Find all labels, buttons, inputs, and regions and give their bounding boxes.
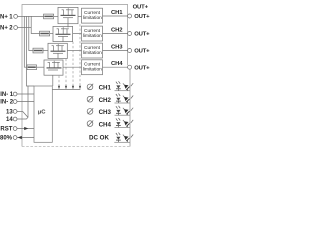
pushbutton CH3 (87, 108, 93, 114)
80% arrowhead (18, 136, 22, 139)
bus wire to row3 (29, 16, 33, 50)
wire CL4 to OUT4 (103, 66, 128, 68)
wire IN-1 to uC (17, 93, 34, 95)
terminal IN-2 (13, 100, 17, 104)
switch T4 (MOSFET box) (44, 60, 63, 86)
svg-text:OUT+: OUT+ (133, 4, 149, 10)
bus wire to row4 (24, 16, 27, 67)
signal rail right (129, 69, 131, 146)
LED pair CH4 (116, 118, 133, 127)
svg-text:OUT+: OUT+ (134, 65, 150, 71)
LED wire CH1 (115, 90, 131, 92)
svg-text:13: 13 (6, 110, 13, 116)
gate control dashed lines (59, 24, 80, 86)
terminal OUT+ CH4 (128, 65, 132, 69)
svg-text:CH1: CH1 (111, 10, 123, 16)
uC sense line (52, 89, 80, 91)
wire T1 to current limitation 1 (78, 15, 82, 17)
bus wire to uC supply (27, 16, 35, 86)
dashed line ch4 (58, 76, 60, 86)
svg-text:14: 14 (6, 117, 13, 123)
LED pair CH1 (116, 81, 133, 90)
terminal 14 (13, 117, 17, 121)
current limitation 4 box (82, 60, 103, 75)
pushbutton CH1 (87, 84, 93, 90)
svg-text:CH2: CH2 (111, 27, 123, 33)
wire T3 to current limitation 3 (68, 50, 82, 52)
svg-text:CH3: CH3 (99, 109, 112, 116)
terminal circles left (13, 15, 17, 140)
svg-text:CH1: CH1 (99, 85, 112, 92)
current limitation 2 box (82, 26, 103, 41)
wire CL3 to OUT3 (103, 50, 128, 52)
svg-text:µC: µC (38, 110, 46, 116)
terminal OUT+ CH1 (128, 14, 132, 18)
switch T1 (MOSFET box) (58, 7, 78, 27)
uC box (34, 86, 52, 142)
terminal N+2 (14, 26, 18, 30)
wire N+1 to shunt R1 (18, 15, 44, 17)
terminal 13 (13, 110, 17, 114)
shunt R2 (40, 31, 50, 36)
wire 80% from uC (17, 137, 34, 139)
wire R3 to switch T3 (43, 50, 48, 52)
svg-text:DC OK: DC OK (89, 135, 109, 142)
svg-text:limitation: limitation (83, 15, 102, 21)
svg-text:OUT+: OUT+ (134, 32, 150, 38)
wire CL1 to OUT1 (103, 15, 128, 17)
relay contact arm (23, 111, 28, 117)
relay feed line (27, 86, 29, 117)
svg-text:IN-: IN- (0, 92, 8, 98)
pushbutton CH4 (87, 121, 93, 127)
LED pair CH3 (116, 106, 133, 115)
shunt R1 (44, 14, 54, 19)
svg-text:OUT+: OUT+ (134, 49, 150, 55)
dashed line ch2 (72, 42, 74, 86)
wire R4 to switch T4 (37, 66, 45, 68)
LED wire CH2 (115, 102, 131, 104)
device frame (22, 5, 128, 147)
svg-text:CH3: CH3 (111, 44, 123, 50)
switch T2 (MOSFET box) (53, 26, 73, 41)
bottom frame note line (22, 146, 130, 148)
svg-text:limitation: limitation (83, 33, 102, 39)
shunt R4 (27, 65, 37, 70)
svg-text:CH2: CH2 (99, 97, 112, 104)
LED wire DC OK (114, 141, 130, 143)
switch T3 (MOSFET box) (48, 43, 67, 58)
terminal N+1 (14, 15, 18, 19)
wire 14 (17, 117, 28, 119)
wire R1 to switch T1 (54, 15, 58, 17)
arrowheads into uC line (58, 86, 81, 89)
current limitation 3 box (82, 43, 103, 58)
svg-text:CH4: CH4 (111, 61, 123, 67)
terminal IN-1 (13, 92, 17, 96)
terminal OUT+ CH3 (128, 49, 132, 53)
svg-text:limitation: limitation (83, 67, 102, 73)
LED wire CH3 (115, 114, 131, 116)
dashed line ch3 (65, 59, 67, 86)
svg-text:OUT+: OUT+ (134, 14, 150, 20)
wire CL2 to OUT2 (103, 33, 128, 35)
wire 13 (17, 110, 23, 112)
terminal RST (13, 127, 17, 131)
LED wire CH4 (115, 126, 131, 128)
svg-text:RST: RST (0, 127, 12, 133)
wire RST to uC (17, 128, 34, 130)
svg-text:80%: 80% (0, 136, 13, 142)
pushbutton CH2 (87, 96, 93, 102)
LED pair CH2 (116, 94, 133, 103)
wire T4 to current limitation 4 (63, 66, 82, 68)
shunt R3 (33, 48, 43, 53)
current limitation labels (83, 10, 102, 73)
wire T2 to current limitation 2 (73, 33, 82, 35)
svg-text:N+: N+ (0, 15, 8, 21)
svg-text:N+: N+ (0, 26, 8, 32)
terminal 80% (13, 136, 17, 140)
svg-text:IN-: IN- (0, 100, 8, 106)
svg-text:limitation: limitation (83, 50, 102, 56)
dashed line ch1 (79, 24, 81, 86)
wire IN-2 to uC (17, 101, 34, 103)
wire R2 to switch T2 (50, 33, 53, 35)
bus wire to row2 (31, 16, 39, 33)
wire N+2 to bus (18, 27, 32, 29)
svg-text:CH4: CH4 (99, 121, 112, 128)
terminal OUT+ CH2 (128, 32, 132, 36)
RST arrowhead (24, 127, 28, 130)
current limitation 1 box (82, 8, 103, 23)
LED pair DC OK (116, 133, 133, 142)
